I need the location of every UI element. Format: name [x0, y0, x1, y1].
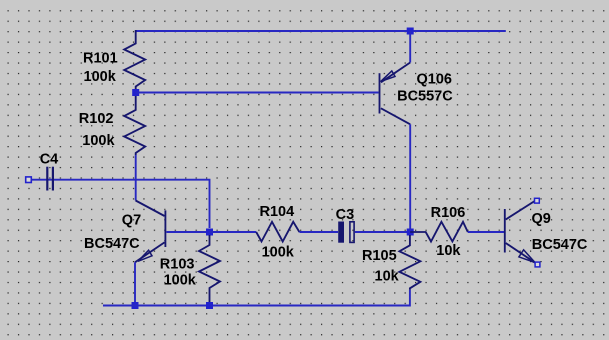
wire R102 bottom to Q7 collector	[135, 155, 137, 201]
svg-text:Q9: Q9	[532, 211, 551, 227]
svg-text:C3: C3	[336, 207, 355, 223]
terminal Q9 emitter port	[535, 262, 540, 267]
Q9 emitter arrow	[519, 250, 535, 263]
resistor R102	[124, 96, 145, 155]
wire Q106 collector to node C	[409, 124, 411, 232]
terminal input port	[26, 177, 32, 183]
capacitor C4	[47, 167, 53, 191]
resistor R106	[410, 222, 468, 242]
svg-text:R101: R101	[83, 50, 118, 66]
wire ground rail	[103, 290, 410, 306]
svg-text:100k: 100k	[84, 69, 117, 85]
svg-text:100k: 100k	[164, 273, 197, 289]
junction node B (R101/R102)	[132, 89, 139, 96]
svg-text:100k: 100k	[262, 245, 295, 261]
resistor R105	[399, 235, 420, 290]
resistor R103	[199, 235, 220, 302]
transistor Q7	[135, 201, 165, 263]
wire R106 to Q9 base	[468, 231, 504, 233]
svg-text:BC557C: BC557C	[397, 89, 453, 105]
Q106 emitter arrow (PNP, points to base bar)	[381, 71, 395, 82]
junction R103 / ground	[206, 302, 213, 309]
svg-text:Q7: Q7	[122, 213, 141, 229]
capacitor C3 (polarized)	[338, 222, 354, 243]
wire R104 to C3	[299, 231, 338, 233]
svg-text:R103: R103	[160, 257, 195, 273]
junction node A	[206, 229, 213, 236]
Q7 emitter arrow	[138, 250, 152, 261]
svg-text:R106: R106	[431, 205, 466, 221]
wire Q106 emitter lead	[409, 31, 411, 63]
svg-text:100k: 100k	[82, 133, 115, 149]
junction Q7 emitter / ground	[132, 302, 139, 309]
svg-text:R104: R104	[260, 204, 295, 220]
terminal Q9 collector port	[535, 198, 540, 203]
svg-text:BC547C: BC547C	[84, 236, 140, 252]
resistor R104	[256, 222, 299, 242]
svg-text:R102: R102	[79, 111, 114, 127]
wire node B to Q106 base	[136, 92, 379, 94]
wire Q7 emitter to ground rail	[134, 262, 136, 305]
svg-text:R105: R105	[362, 248, 397, 264]
svg-text:C4: C4	[40, 152, 59, 168]
resistor R101	[124, 30, 145, 93]
transistor Q9	[505, 201, 536, 264]
transistor Q106	[380, 63, 411, 125]
wire VCC top rail	[136, 30, 506, 32]
wire C3 to node C	[355, 231, 410, 233]
wire Q7 base to node A	[166, 231, 209, 233]
svg-text:BC547C: BC547C	[532, 237, 588, 253]
junction node C	[407, 229, 414, 236]
wire input to node A (horizontal then down)	[31, 180, 209, 228]
svg-text:Q106: Q106	[417, 72, 452, 88]
svg-text:10k: 10k	[375, 269, 400, 285]
wire node A to R104	[210, 231, 257, 233]
svg-text:10k: 10k	[436, 243, 461, 259]
junction VCC / Q106 emitter	[407, 28, 414, 35]
